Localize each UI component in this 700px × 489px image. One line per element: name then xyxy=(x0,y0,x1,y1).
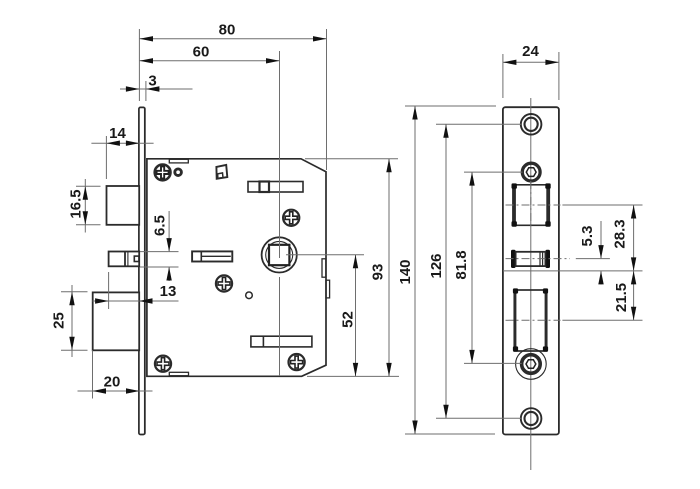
top screw hole xyxy=(521,114,542,135)
deadbolt stump square xyxy=(134,256,139,261)
dim 5.3 lines xyxy=(600,221,602,285)
screw S2 xyxy=(216,275,232,291)
svg-text:16.5: 16.5 xyxy=(68,189,85,218)
ext lines 24 xyxy=(503,52,559,100)
ext line hex top xyxy=(464,171,523,173)
dim 3 line xyxy=(120,88,193,90)
spindle square hole xyxy=(269,245,289,265)
dim 6.5 lines xyxy=(168,211,170,281)
right edge notch xyxy=(322,259,326,277)
svg-text:93: 93 xyxy=(370,264,387,281)
top fixing tab xyxy=(169,159,188,163)
dim 80 line xyxy=(140,38,327,40)
ext line latch cutout center xyxy=(562,204,642,206)
lower slot xyxy=(251,336,312,347)
svg-text:140: 140 xyxy=(397,259,414,284)
dim 28.3 / 21.5 line xyxy=(633,205,635,320)
tall cutout xyxy=(514,290,546,351)
screw S4 xyxy=(155,356,171,372)
bottom fixing tab xyxy=(169,372,188,375)
ext line x92.5 xyxy=(92,350,94,398)
svg-text:21.5: 21.5 xyxy=(613,283,630,312)
svg-text:52: 52 xyxy=(340,311,357,328)
ext line body bottom right xyxy=(307,375,399,377)
deadbolt xyxy=(109,252,140,267)
svg-text:24: 24 xyxy=(522,43,539,60)
svg-text:3: 3 xyxy=(148,73,156,90)
ext line top screw xyxy=(436,123,521,125)
ext line x145.9 xyxy=(145,81,147,101)
ext lines deadbolt top/bottom xyxy=(140,252,179,267)
dim 14 line xyxy=(91,142,153,144)
svg-text:5.3: 5.3 xyxy=(579,226,596,247)
svg-text:14: 14 xyxy=(109,125,126,142)
hex set screw bottom xyxy=(516,349,547,380)
ext line plate top xyxy=(405,105,496,107)
upper slot xyxy=(248,182,303,193)
svg-text:6.5: 6.5 xyxy=(152,215,169,236)
ext line x139.4 top xyxy=(138,29,140,101)
small pin hole xyxy=(246,292,253,299)
latch cutout centerlines xyxy=(506,204,561,206)
dim 126 line xyxy=(445,124,447,418)
ext line hub center xyxy=(286,254,364,256)
ext line tall cutout center xyxy=(562,319,642,321)
svg-text:13: 13 xyxy=(160,283,177,300)
ext line body top right xyxy=(305,158,398,160)
ext line plate bottom xyxy=(405,433,495,435)
cylinder bolt xyxy=(93,292,140,350)
spindle hub inner circle xyxy=(266,241,293,268)
ext line mid reference xyxy=(503,270,643,272)
latch cutout xyxy=(513,185,549,226)
svg-text:20: 20 xyxy=(104,374,121,391)
ext line x106.4 xyxy=(105,136,107,179)
washer xyxy=(175,169,182,176)
svg-text:25: 25 xyxy=(51,312,68,329)
hex set screw top xyxy=(522,163,540,181)
ext line small slot center xyxy=(576,258,610,260)
screw S5 xyxy=(283,210,299,226)
faceplate right edge re-stroke xyxy=(144,108,146,435)
centerline x279.5 xyxy=(279,51,281,376)
dim 60 line xyxy=(140,60,280,62)
stop piece trapezoid xyxy=(216,165,227,179)
faceplate front xyxy=(503,107,559,434)
bottom screw hole xyxy=(521,408,542,429)
small slot xyxy=(511,250,516,268)
right edge tab xyxy=(326,280,330,298)
faceplate side view xyxy=(139,107,145,434)
dim 16.5 line xyxy=(84,179,86,233)
faceplate vertical centerline xyxy=(530,98,532,470)
dim 81.8 line xyxy=(471,172,473,363)
dim 20 line xyxy=(78,390,153,392)
ext line bottom screw xyxy=(436,417,521,419)
ext line x326.5 xyxy=(326,29,328,170)
latch bolt xyxy=(107,186,140,225)
screw S3 xyxy=(289,354,305,370)
dim 13 line xyxy=(93,300,179,302)
dim 52 line xyxy=(355,255,357,377)
ext line hex bottom xyxy=(464,362,522,364)
lock body case xyxy=(147,159,326,376)
ext lines latch bolt top/bottom xyxy=(76,186,101,225)
ext line x108.6 xyxy=(108,272,110,309)
small slot centerline xyxy=(506,258,571,260)
dim 25 line xyxy=(71,285,73,357)
svg-text:60: 60 xyxy=(193,44,210,61)
ext lines cylinder bolt top/bottom xyxy=(61,292,88,351)
dim 93 line xyxy=(388,159,390,377)
svg-text:28.3: 28.3 xyxy=(612,219,629,248)
deadbolt detail lines xyxy=(124,252,126,267)
left middle slot xyxy=(192,251,232,261)
svg-text:81.8: 81.8 xyxy=(453,250,470,279)
spindle hub outer circle xyxy=(262,237,297,272)
svg-text:126: 126 xyxy=(428,253,445,278)
dim 24 line xyxy=(503,61,559,63)
dim 140 line xyxy=(414,106,416,434)
svg-text:80: 80 xyxy=(219,22,236,39)
tall cutout centerline xyxy=(506,319,561,321)
screw S1 top-left xyxy=(155,165,171,181)
